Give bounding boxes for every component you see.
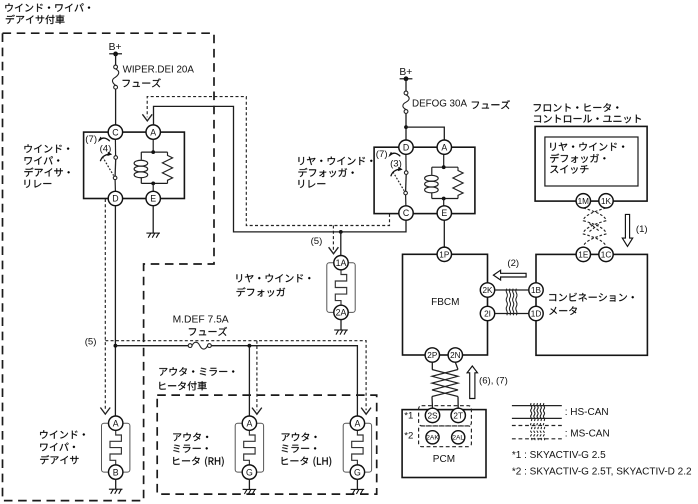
FBCM terminal 1P <box>437 247 451 261</box>
wiper deicer relay switch blade <box>114 159 117 176</box>
wire relay1 D down to deicer A <box>114 206 116 416</box>
meter terminal 1B <box>529 283 543 297</box>
windshield wiper deicer heater meander <box>110 430 121 465</box>
outer mirror heater RH heater meander <box>244 430 255 465</box>
outer mirror heater RH terminal A <box>242 416 256 430</box>
junction RH heater feed <box>248 344 252 348</box>
rear window defogger relay junction top <box>442 165 446 169</box>
svg-text:G: G <box>354 467 361 477</box>
svg-text:2A: 2A <box>336 308 347 318</box>
svg-text:(2): (2) <box>507 258 519 269</box>
legend MS-CAN twist <box>531 423 545 441</box>
svg-text:PCM: PCM <box>433 454 455 465</box>
label windshield wiper deicer line3 <box>40 455 78 464</box>
rear window defogger relay coil stub top <box>431 167 433 175</box>
wiper deicer relay switch bottom contact <box>113 176 117 180</box>
rear window defogger terminal 2A <box>334 305 348 319</box>
dashed region: with windshield wiper deicer (outline) <box>3 33 215 500</box>
label rear window defogger line2 <box>237 287 286 296</box>
wiper deicer relay switch alternate position (dotted) <box>103 157 114 176</box>
rear window defogger terminal 1A <box>334 256 348 270</box>
rear window defogger relay relay coil <box>425 175 439 192</box>
PCM connector group *2 dashed box <box>419 426 472 447</box>
label outer mirror heater LH line1 <box>282 433 317 442</box>
svg-text:(7): (7) <box>85 134 97 145</box>
PCM terminal 2S <box>425 408 439 422</box>
svg-text:D: D <box>112 194 118 204</box>
arrowhead into RH heater A <box>252 408 262 415</box>
heater bus right segment <box>211 346 357 416</box>
outer mirror heater LH terminal A <box>350 416 364 430</box>
wire defogger 2A to ground <box>340 320 342 330</box>
outer mirror heater RH element box <box>235 423 263 472</box>
wire 2K to 1B <box>495 289 529 291</box>
svg-text:E: E <box>441 208 447 218</box>
junction relay2 feed <box>404 125 408 129</box>
FBCM terminal 2N <box>448 348 462 362</box>
svg-text:DEFOG 30A: DEFOG 30A <box>412 98 467 109</box>
outline arrow (6)(7) <box>467 366 477 399</box>
FBCM terminal 2I <box>480 306 494 320</box>
svg-text:E: E <box>150 194 156 204</box>
front heater control unit box <box>535 126 647 201</box>
svg-text:2I: 2I <box>484 310 491 319</box>
wiper deicer relay network bottom rail <box>141 182 167 184</box>
dashed branch to RH heater <box>256 341 258 411</box>
wiper deicer relay label (4) curved arrow <box>100 154 109 161</box>
svg-text:1B: 1B <box>531 286 542 295</box>
svg-text:A: A <box>150 127 156 137</box>
wiper deicer relay coil stub top <box>140 152 142 160</box>
wiper deicer relay case box <box>84 132 185 198</box>
svg-text:2AL: 2AL <box>452 435 464 442</box>
svg-text:A: A <box>113 418 119 428</box>
battery feed tick <box>109 53 122 55</box>
svg-text:*2 : SKYACTIV-G 2.5T, SKYACTI: *2 : SKYACTIV-G 2.5T, SKYACTIV-D 2.2 <box>512 467 692 478</box>
label: with windshield wiper deicer line2 <box>6 15 65 24</box>
wire junction to RH heater A <box>248 346 250 416</box>
wiper deicer relay junction bottom <box>151 182 155 186</box>
wire relay1 E to ground <box>152 206 154 233</box>
label combination meter line1 <box>549 293 634 302</box>
rear window defogger switch box <box>545 137 638 186</box>
rear window defogger relay wire from switch to bottom terminal <box>405 195 407 207</box>
svg-text:(3): (3) <box>390 159 402 170</box>
dashed heater bus <box>105 341 366 411</box>
svg-text:1C: 1C <box>601 250 612 259</box>
FBCM terminal 2K <box>480 283 494 297</box>
dashed region: with outer mirror heater (outline) <box>157 395 377 494</box>
meter terminal 1D <box>529 306 543 320</box>
wiper deicer relay label (7) curved arrow <box>99 138 110 141</box>
label front heater control unit line2 <box>534 115 641 124</box>
wiper deicer relay wire from switch to bottom terminal <box>114 180 116 192</box>
ground below defogger <box>334 330 348 335</box>
svg-text:1E: 1E <box>578 250 589 259</box>
dashed branch to defogger (5) <box>332 226 334 251</box>
label outer mirror heater RH line1 <box>173 433 208 442</box>
relay2 terminal C <box>399 206 413 220</box>
label rear window defogger relay line1 <box>299 157 373 165</box>
windshield wiper deicer element box <box>102 423 130 472</box>
rear window defogger relay label (3) curved arrow <box>391 169 400 176</box>
wire junction to relay2 A <box>406 127 444 140</box>
rear window defogger relay network top rail <box>432 166 458 168</box>
outer mirror heater RH terminal G <box>242 465 256 479</box>
label outer mirror heater LH line3 <box>282 457 332 467</box>
svg-text:A: A <box>354 418 360 428</box>
label rear window defogger relay line2 <box>298 168 353 177</box>
svg-text:M.DEF 7.5A: M.DEF 7.5A <box>173 314 229 325</box>
label wiper deicer relay line4 <box>25 180 52 188</box>
wire B+ to DEFOG fuse <box>405 79 407 91</box>
legend HS-CAN twist <box>531 403 545 421</box>
arrowhead into LH heater A <box>361 408 371 415</box>
svg-text:(7): (7) <box>376 149 388 160</box>
svg-text:FBCM: FBCM <box>431 297 459 308</box>
svg-text:1M: 1M <box>578 197 590 206</box>
fuse M.DEF 7.5A <box>188 342 211 349</box>
svg-text:1P: 1P <box>439 250 450 259</box>
PCM terminal 2AL <box>452 431 465 444</box>
label with outer mirror heater line1 <box>159 367 234 376</box>
meter terminal 1C <box>599 247 613 261</box>
label: with windshield wiper deicer line1 <box>5 3 90 12</box>
relay2 terminal A <box>437 140 451 154</box>
wire relay2 E to FBCM 1P <box>443 220 445 247</box>
rear window defogger relay switch alternate position (dotted) <box>393 172 404 191</box>
dashed wire relay2 case to relay1 A (connector path) <box>147 97 389 226</box>
heater bus left segment <box>115 345 188 347</box>
svg-text:C: C <box>112 127 119 137</box>
relay terminal A <box>146 125 160 139</box>
outline arrow (1) <box>622 214 632 246</box>
wiper deicer relay network top rail <box>141 151 167 153</box>
meter terminal 1E <box>576 247 590 261</box>
label windshield wiper deicer line1 <box>40 430 85 438</box>
wire junction to defogger 1A <box>340 232 342 256</box>
svg-text:(4): (4) <box>100 144 112 155</box>
rear window defogger relay wire from top terminal to switch contact <box>405 154 407 170</box>
svg-text:*1 : SKYACTIV-G 2.5: *1 : SKYACTIV-G 2.5 <box>512 450 606 461</box>
label rear window defogger relay line3 <box>299 180 326 188</box>
arrowhead into deicer A <box>100 408 110 415</box>
windshield wiper deicer terminal A <box>109 416 123 430</box>
arrowhead into relay1 A <box>142 114 152 121</box>
relay terminal E <box>146 191 160 205</box>
outline arrow (2) <box>493 270 526 280</box>
svg-text:2T: 2T <box>453 411 463 420</box>
svg-text:C: C <box>403 208 410 218</box>
wiper deicer relay relay coil <box>134 160 148 178</box>
svg-text:*1: *1 <box>404 411 413 422</box>
relay2 terminal D <box>399 140 413 154</box>
svg-text:2AK: 2AK <box>426 435 439 442</box>
svg-text:2P: 2P <box>427 351 438 360</box>
svg-text:B: B <box>113 467 119 477</box>
rear window defogger relay junction bottom <box>442 197 446 201</box>
label wiper deicer relay line2 <box>25 156 60 165</box>
battery feed dot 2 <box>404 76 409 81</box>
outer mirror heater LH element box <box>343 423 371 472</box>
svg-text:1K: 1K <box>601 197 612 206</box>
svg-text:1A: 1A <box>336 258 347 268</box>
svg-text:(1): (1) <box>636 224 648 235</box>
battery feed dot <box>113 52 118 57</box>
HS-CAN twist FBCM-meter <box>506 289 517 316</box>
svg-text:(6), (7): (6), (7) <box>479 376 508 387</box>
wire 2I to 1D <box>495 313 529 315</box>
label with outer mirror heater line2 <box>159 381 206 390</box>
ground below LH heater <box>351 489 365 494</box>
junction heater bus left <box>114 344 118 348</box>
svg-text:: HS-CAN: : HS-CAN <box>565 407 609 418</box>
svg-text:D: D <box>403 142 409 152</box>
wiper deicer relay wire network to bottom right terminal <box>152 183 154 191</box>
fuse WIPER.DEI 20A <box>112 65 118 89</box>
rear window defogger relay switch blade <box>405 174 408 191</box>
label fuse (katakana) <box>123 78 161 87</box>
outer mirror heater LH heater meander <box>352 430 363 465</box>
rear window defogger relay case box <box>374 147 475 213</box>
wire LH G to ground <box>356 479 358 489</box>
wiper deicer relay junction top <box>151 150 155 154</box>
rear window defogger relay switch top contact <box>404 171 408 175</box>
ground below RH heater <box>243 489 257 494</box>
PCM terminal 2AK <box>426 431 439 444</box>
HS-CAN twist FBCM-PCM <box>432 370 458 397</box>
wiper deicer relay wire from top terminal to switch contact <box>114 139 116 155</box>
svg-text:WIPER.DEI 20A: WIPER.DEI 20A <box>123 64 195 75</box>
label front heater control unit line1 <box>534 103 619 112</box>
PCM box <box>402 410 486 478</box>
rear window defogger relay network bottom rail <box>432 198 458 200</box>
label wiper deicer relay line3 <box>24 168 69 177</box>
svg-text:2S: 2S <box>427 411 438 420</box>
label defogger switch line2 <box>550 154 605 163</box>
label defogger switch line1 <box>550 142 624 150</box>
rear window defogger relay coil stub bottom <box>431 193 433 199</box>
svg-text:A: A <box>441 142 447 152</box>
label outer mirror heater RH line3 <box>173 457 223 467</box>
PCM terminal 2T <box>451 408 465 422</box>
label rear window defogger line1 <box>237 274 311 282</box>
rear window defogger relay resistor (parallel with coil) <box>453 167 463 198</box>
FBCM box <box>403 254 488 355</box>
wire fuse to relay terminal C <box>115 89 117 125</box>
windshield wiper deicer terminal B <box>109 465 123 479</box>
wire deicer B to ground <box>115 479 117 489</box>
wiper deicer relay wire right terminal to network <box>152 139 154 152</box>
rear window defogger relay label (7) curved arrow <box>390 153 401 156</box>
label windshield wiper deicer line2 <box>40 443 75 452</box>
svg-text:1D: 1D <box>531 310 542 319</box>
svg-text:A: A <box>246 418 252 428</box>
FBCM terminal 2P <box>425 348 439 362</box>
fuse DEFOG 30A <box>403 91 409 113</box>
wire braid to 2T <box>457 397 459 409</box>
combination meter box <box>536 254 647 355</box>
rear window defogger element box <box>327 263 355 313</box>
wiper deicer relay coil stub bottom <box>140 178 142 184</box>
svg-text:2K: 2K <box>482 286 493 295</box>
svg-text:*2: *2 <box>404 431 413 442</box>
label combination meter line2 <box>549 306 577 315</box>
outer mirror heater LH terminal G <box>350 465 364 479</box>
wire 2P down <box>431 362 433 369</box>
svg-text:(5): (5) <box>85 336 97 347</box>
unit terminal 1M <box>576 194 590 208</box>
ground below deicer <box>109 489 123 494</box>
wire braid to 2S <box>431 397 434 409</box>
svg-text:B+: B+ <box>109 42 122 53</box>
wiper deicer relay resistor (parallel with coil) <box>162 152 172 183</box>
svg-text:: MS-CAN: : MS-CAN <box>565 429 610 440</box>
legend MS-CAN wire pair <box>512 426 562 439</box>
svg-text:G: G <box>246 467 253 477</box>
arrowhead into defogger 1A <box>329 247 339 254</box>
label wiper deicer relay line1 <box>25 144 70 152</box>
svg-text:(5): (5) <box>311 236 323 247</box>
junction defogger feed <box>339 230 343 234</box>
dashed wire relay1 case down to heater bus <box>104 199 106 410</box>
label fuse katakana (M.DEF) <box>189 327 227 336</box>
relay2 terminal E <box>437 206 451 220</box>
MS-CAN twisted pair unit-meter <box>583 208 606 247</box>
wire 2N down <box>455 362 458 369</box>
label outer mirror heater RH line2 <box>173 445 208 453</box>
wire RH G to ground <box>248 479 250 489</box>
wire B+ to fuse <box>115 54 117 65</box>
legend HS-CAN wire pair <box>512 406 562 419</box>
svg-text:2N: 2N <box>450 351 461 360</box>
battery feed tick 2 <box>400 78 413 80</box>
rear window defogger relay switch bottom contact <box>404 191 408 195</box>
rear window defogger relay wire right terminal to network <box>443 154 445 167</box>
unit terminal 1K <box>599 194 613 208</box>
PCM connector group *1 dashed box <box>419 406 472 426</box>
wire relay1 A to relay2 C (via top route) <box>154 106 407 231</box>
label fuse katakana (DEFOG) <box>472 100 510 109</box>
ground below relay1 E <box>146 233 160 238</box>
rear window defogger heater meander <box>335 270 346 305</box>
wire DEFOG fuse to relay2 D <box>405 113 407 140</box>
wiper deicer relay switch top contact <box>114 156 118 160</box>
rear window defogger relay wire network to bottom right terminal <box>443 199 445 207</box>
relay terminal D <box>108 191 122 205</box>
label outer mirror heater LH line2 <box>282 445 317 453</box>
relay terminal C <box>108 125 122 139</box>
label defogger switch line3 <box>550 165 588 174</box>
